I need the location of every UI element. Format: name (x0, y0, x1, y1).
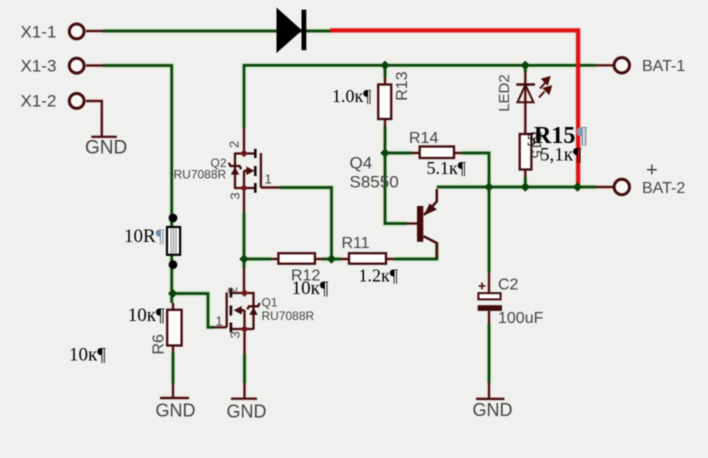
svg-text:10к¶: 10к¶ (128, 305, 165, 326)
svg-text:RU7088R: RU7088R (174, 168, 227, 182)
svg-text:100uF: 100uF (498, 310, 544, 327)
svg-text:10к¶: 10к¶ (69, 344, 106, 365)
svg-text:GND: GND (156, 400, 196, 420)
svg-text:BAT-1: BAT-1 (642, 58, 685, 75)
svg-text:C2: C2 (498, 277, 519, 294)
svg-text:R13: R13 (394, 71, 411, 100)
svg-text:Q1: Q1 (262, 296, 278, 310)
svg-text:3: 3 (227, 192, 242, 199)
svg-text:10R¶: 10R¶ (124, 226, 165, 247)
svg-text:1.0к¶: 1.0к¶ (332, 86, 371, 106)
svg-text:GND: GND (473, 400, 513, 420)
svg-text:2: 2 (225, 287, 240, 294)
svg-text:R6: R6 (151, 334, 168, 355)
svg-text:R14: R14 (409, 130, 438, 147)
svg-text:1: 1 (216, 314, 223, 329)
svg-text:X1-2: X1-2 (21, 91, 57, 110)
svg-text:LED2: LED2 (496, 74, 513, 112)
svg-text:BAT-2: BAT-2 (642, 180, 685, 197)
svg-text:10к¶: 10к¶ (292, 278, 329, 299)
svg-text:1.2к¶: 1.2к¶ (359, 266, 398, 286)
svg-text:GND: GND (85, 138, 127, 159)
svg-text:RU7088R: RU7088R (262, 309, 315, 323)
svg-text:5.1к¶: 5.1к¶ (427, 158, 466, 178)
svg-text:1: 1 (265, 172, 272, 187)
svg-text:Q4: Q4 (350, 153, 373, 172)
svg-text:+: + (646, 160, 658, 182)
svg-text:3: 3 (228, 331, 243, 338)
svg-text:X1-1: X1-1 (21, 22, 57, 41)
svg-text:S8550: S8550 (350, 172, 399, 191)
svg-text:2: 2 (226, 141, 241, 148)
svg-text:X1-3: X1-3 (21, 56, 57, 75)
svg-text:R15¶: R15¶ (534, 123, 588, 149)
svg-text:R11: R11 (342, 235, 370, 252)
svg-text:GND: GND (227, 401, 267, 421)
